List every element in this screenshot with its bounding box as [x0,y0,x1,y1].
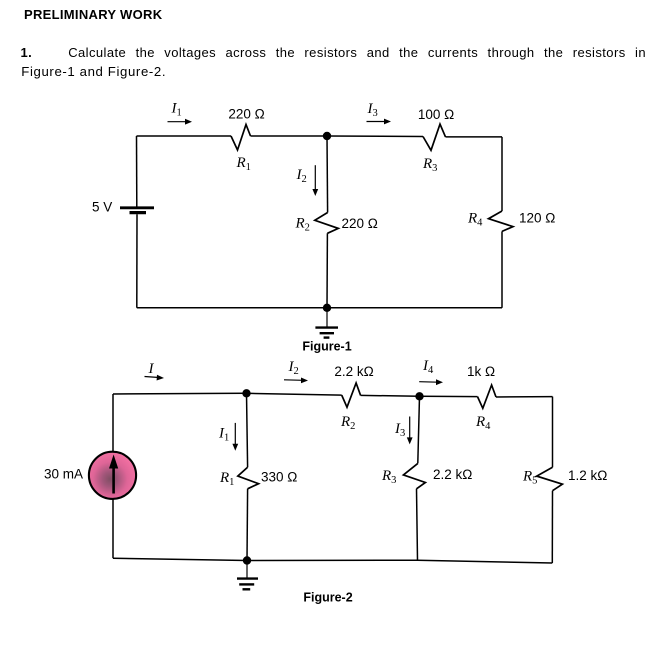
wire: fig2 top segment R4 to top-right corner [496,396,553,398]
resistor R3 (100 ohm) zigzag [423,124,446,150]
svg-text:I1: I1 [171,100,182,118]
svg-text:5 V: 5 V [92,200,112,215]
ground symbol fig1 [315,308,338,338]
current arrow I1 [168,119,193,125]
svg-text:R3: R3 [381,468,396,486]
svg-text:I2: I2 [288,359,299,377]
wire: fig1 top segment node A to R3 [327,135,423,138]
resistor R5 (1.2 kohm) zigzag [537,467,563,490]
wire: fig2 top segment left corner to node C [113,392,247,395]
wire: fig1 top-left segment (battery to R1) [137,135,232,137]
current arrow I1 (fig2) [232,423,238,451]
svg-text:220 Ω: 220 Ω [342,216,378,231]
svg-text:R4: R4 [467,210,483,228]
wire: fig2 top segment node D to R4 [420,395,478,397]
wire: fig2 bottom wire right [418,560,553,563]
wire: fig2 branch R1 upper [247,393,248,467]
resistor R3 fig2 (2.2 kohm) zigzag [403,463,425,488]
current source arrow [109,455,118,494]
wire: fig2 bottom wire middle [247,559,418,561]
wire: fig2 branch R1 lower [246,489,249,561]
current arrow I2 (fig2) [284,378,308,384]
wire: fig1 right wire lower [501,231,503,307]
resistor R1 (220 ohm) zigzag [231,125,251,151]
node C (fig2 top-left junction dot) [242,389,250,397]
svg-text:I3: I3 [394,421,405,439]
svg-text:330 Ω: 330 Ω [261,470,297,485]
svg-text:R1: R1 [219,470,234,488]
node B (bottom junction dot) [323,304,331,312]
resistor R2 (220 ohm) vertical zigzag [315,213,339,234]
battery V1 short plate (-) [130,211,147,214]
svg-text:I3: I3 [367,101,378,119]
current arrow I2 [312,165,318,196]
wire: fig2 right wire lower [551,491,553,563]
wire: fig2 branch R3 lower [417,489,418,560]
wire: fig1 middle branch lower (R2 to bottom wire) [326,233,328,307]
node A (top junction dot) [323,132,331,140]
svg-text:2.2 kΩ: 2.2 kΩ [433,467,472,482]
wire: fig2 top segment node C to R2 [247,393,342,395]
current arrow I (fig2) [145,375,165,381]
wire: fig2 branch R3 upper [418,396,420,463]
wire: fig1 top segment R3 to top-right corner [446,136,503,138]
svg-text:120 Ω: 120 Ω [519,211,555,226]
svg-text:I1: I1 [218,426,229,444]
svg-text:1.2 kΩ: 1.2 kΩ [568,468,607,483]
problem statement line 2 [21,64,166,79]
wire: fig1 bottom wire [137,307,502,309]
wire: fig1 left wire below battery [136,214,138,308]
ground symbol fig2 [237,561,258,590]
wire: fig1 left wire above battery [136,136,138,207]
svg-text:1k Ω: 1k Ω [467,364,495,379]
svg-text:R2: R2 [295,215,310,233]
svg-text:I2: I2 [296,167,307,185]
document title [24,8,162,21]
svg-text:I: I [148,361,155,377]
wire: fig2 right wire upper [552,397,554,468]
svg-text:30 mA: 30 mA [44,467,83,482]
wire: fig1 top segment R1 to node A [251,135,328,137]
current arrow I3 (fig2) [407,417,413,445]
node D (fig2 top-right junction dot) [415,392,423,400]
svg-text:R2: R2 [340,414,355,432]
resistor R1 fig2 (330 ohm) zigzag [238,467,259,489]
current arrow I3 [367,119,392,125]
svg-text:R4: R4 [475,414,491,432]
svg-text:R1: R1 [236,155,251,173]
svg-text:R5: R5 [522,469,537,487]
svg-text:100 Ω: 100 Ω [418,107,454,122]
svg-text:2.2 kΩ: 2.2 kΩ [334,364,373,379]
wire: fig2 bottom wire left (to ground node) [113,558,247,560]
problem statement line 1 [21,45,647,60]
wire: fig2 left wire below current source [112,499,114,558]
current arrow I4 (fig2) [419,379,443,385]
wire: fig2 left wire above current source [112,394,114,452]
wire: fig2 top segment R2 to node D [361,394,420,397]
svg-text:R3: R3 [422,156,437,174]
svg-text:Figure-2: Figure-2 [303,591,352,605]
resistor R4 fig2 (1k ohm) zigzag [478,385,497,408]
node E (fig2 bottom junction dot) [243,556,251,564]
current source (30 mA) circle [89,452,136,499]
wire: fig1 middle branch upper (node A down to R2) [326,136,329,213]
resistor R4 (120 ohm) zigzag [489,211,514,231]
svg-text:Figure-1: Figure-1 [302,340,351,354]
resistor R2 fig2 (2.2 kohm) zigzag [342,383,361,407]
battery V1 long plate (+) [120,206,154,209]
svg-text:I4: I4 [422,358,434,376]
wire: fig1 right wire upper [501,137,503,211]
svg-text:220 Ω: 220 Ω [228,107,264,122]
